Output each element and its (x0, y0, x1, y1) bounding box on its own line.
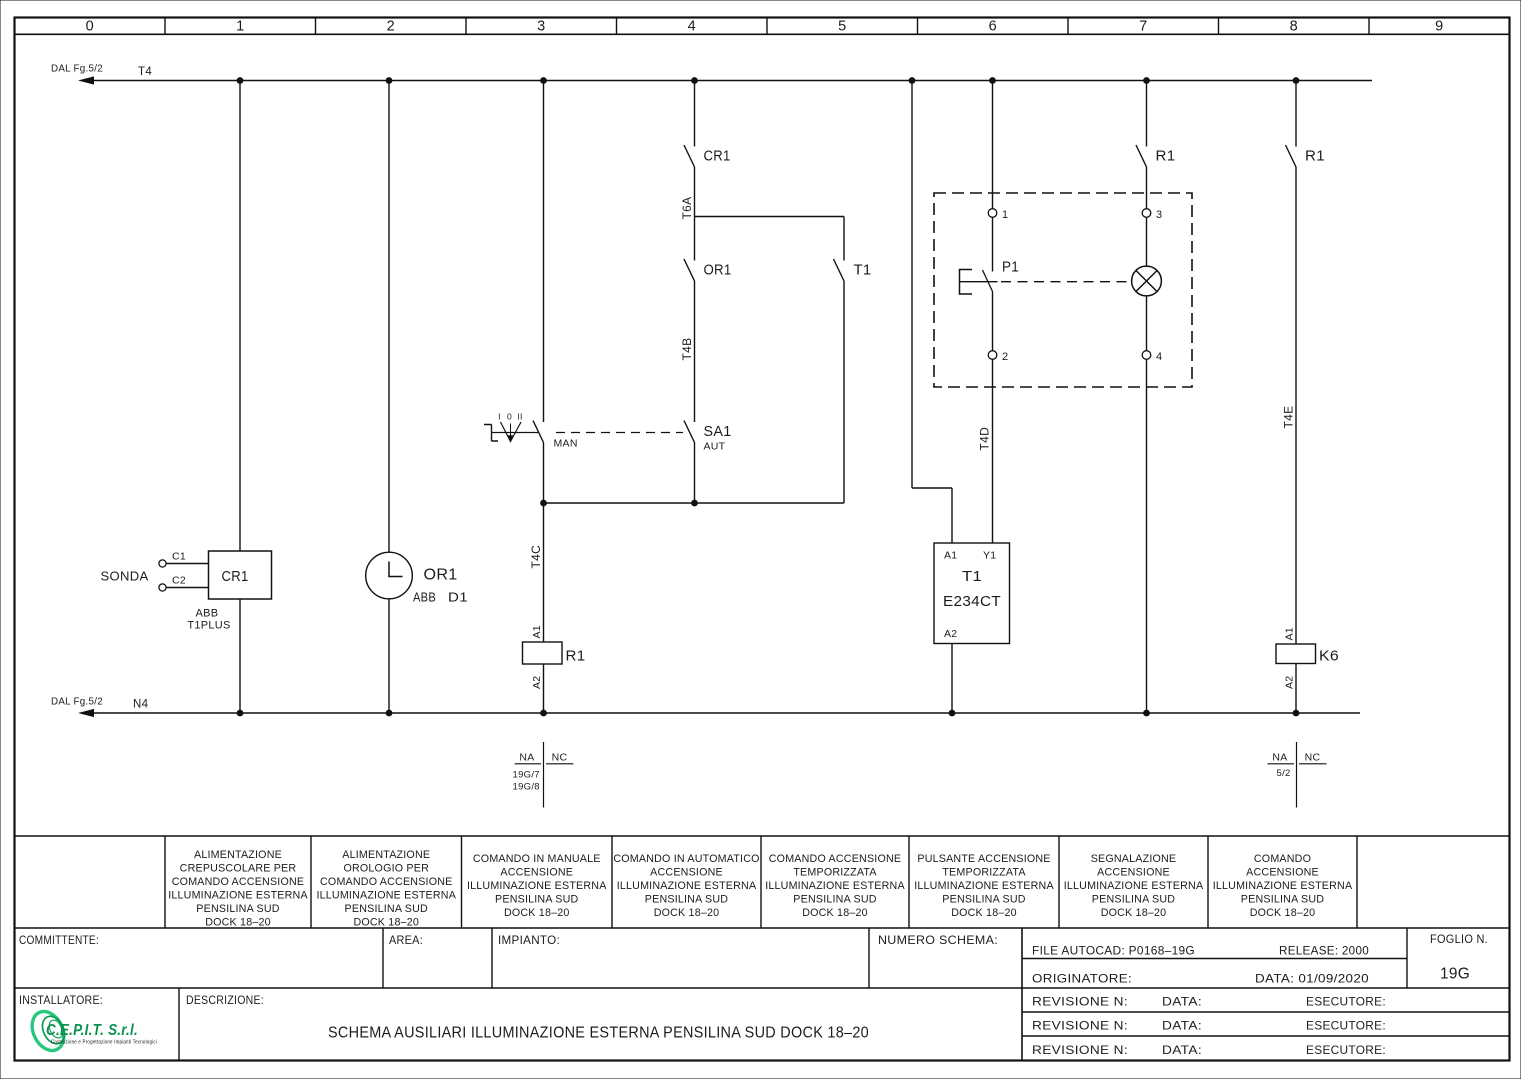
svg-text:4: 4 (1156, 351, 1162, 363)
wire column3 upper (543, 81, 545, 423)
wire column9 seg1 (1146, 81, 1148, 147)
svg-text:ABB: ABB (413, 591, 436, 605)
dashed mechanical link MAN-SA1 (556, 432, 683, 434)
svg-text:T6A: T6A (680, 197, 694, 220)
contact MAN (selector) (533, 421, 544, 443)
svg-text:AREA:: AREA: (389, 933, 423, 947)
junction at column3 y503 (541, 500, 547, 506)
svg-text:1: 1 (1002, 209, 1008, 221)
divider committente/area (382, 928, 384, 988)
wire to A1 pin (951, 488, 953, 543)
bottom bus N4 wire (93, 712, 1360, 714)
svg-text:A2: A2 (944, 628, 957, 640)
svg-text:P1: P1 (1002, 260, 1019, 276)
wire T1-branch upper (843, 217, 845, 261)
svg-text:DAL Fg.5/2: DAL Fg.5/2 (51, 696, 103, 708)
wire column1 bottom (239, 599, 241, 713)
svg-text:COMMITTENTE:: COMMITTENTE: (19, 933, 99, 947)
junction on N4 bus (1144, 710, 1150, 716)
svg-text:AUT: AUT (704, 441, 726, 453)
svg-text:A2: A2 (531, 676, 543, 689)
divider installatore/descrizione (178, 988, 180, 1061)
svg-text:NC: NC (552, 752, 568, 764)
svg-text:OR1: OR1 (704, 263, 732, 279)
top bus T4 arrow (80, 77, 94, 84)
logo CEPIT swoosh outer (26, 1006, 70, 1056)
svg-text:REVISIONE N:: REVISIONE N: (1032, 1019, 1128, 1033)
cross-ref K6 NA underline (1268, 763, 1295, 765)
ruler tick 7 (1067, 18, 1069, 35)
wire column2 bottom (388, 599, 390, 713)
junction on N4 bus (949, 710, 955, 716)
selector position V left (501, 422, 511, 442)
lamp HL circle (1132, 266, 1162, 296)
svg-text:E234CT: E234CT (943, 594, 1001, 610)
wire 3 to lamp (1146, 217, 1148, 266)
svg-text:Costruzione e Progettazione Im: Costruzione e Progettazione Impianti Tec… (51, 1040, 157, 1046)
title block line under committente row (15, 987, 1510, 989)
divider area/impianto (491, 928, 493, 988)
wire column10 seg2 (1295, 167, 1297, 644)
wire jog horizontal (912, 487, 952, 489)
revision row divider 2 (1022, 1035, 1510, 1037)
ruler tick 6 (917, 18, 919, 35)
svg-text:K6: K6 (1319, 649, 1339, 665)
device box CR1 (crepuscolare) (209, 551, 272, 599)
ruler tick 8 (1218, 18, 1220, 35)
pushbutton P1 actuator bracket (960, 270, 973, 295)
svg-text:6: 6 (989, 19, 997, 35)
wire column9 to N4 (1146, 359, 1148, 713)
wire column3 bottom (543, 664, 545, 713)
junction on T4 bus (1293, 78, 1299, 84)
contact R1 (K6) (1286, 145, 1297, 167)
wire column2 top (388, 81, 390, 553)
svg-text:T4B: T4B (680, 338, 694, 361)
lead C1 (166, 563, 208, 565)
ruler tick 9 (1368, 18, 1370, 35)
wire column3 middle (543, 443, 545, 643)
junction on T4 bus (237, 78, 243, 84)
svg-text:C1: C1 (172, 551, 186, 563)
svg-text:5: 5 (838, 19, 846, 35)
wire lamp to 4 (1146, 296, 1148, 351)
cross-ref K6 NC underline (1299, 763, 1327, 765)
svg-text:ESECUTORE:: ESECUTORE: (1306, 1019, 1386, 1033)
svg-text:3: 3 (537, 19, 545, 35)
svg-text:I: I (498, 412, 501, 422)
svg-text:ESECUTORE:: ESECUTORE: (1306, 1043, 1386, 1057)
svg-text:T4C: T4C (529, 545, 543, 569)
revision row divider 1 (1022, 1011, 1510, 1013)
svg-text:3: 3 (1156, 209, 1162, 221)
bottom bus N4 arrow (80, 710, 94, 717)
junction on N4 bus (237, 710, 243, 716)
pushbutton P1 plunger link (960, 281, 998, 283)
svg-text:RELEASE: 2000: RELEASE: 2000 (1279, 944, 1369, 958)
svg-text:0: 0 (86, 19, 94, 35)
dashed link P1 to lamp (1001, 281, 1131, 283)
svg-text:INSTALLATORE:: INSTALLATORE: (19, 993, 103, 1007)
svg-text:1: 1 (236, 19, 244, 35)
junction on T4 bus (386, 78, 392, 84)
file block left edge (1021, 928, 1023, 1061)
coil R1 box (523, 642, 563, 664)
svg-text:D1: D1 (448, 591, 468, 605)
wire column4 seg4 (694, 443, 696, 504)
lead C2 (166, 587, 208, 589)
svg-text:7: 7 (1139, 19, 1147, 35)
svg-text:R1: R1 (1156, 149, 1176, 165)
svg-text:Y1: Y1 (983, 550, 996, 562)
function strip divider (164, 836, 166, 928)
svg-text:DESCRIZIONE:: DESCRIZIONE: (186, 993, 264, 1007)
svg-text:4: 4 (688, 19, 696, 35)
function strip divider (1207, 836, 1209, 928)
junction on N4 bus (541, 710, 547, 716)
cross-ref R1 NC underline (546, 763, 574, 765)
svg-text:8: 8 (1290, 19, 1298, 35)
selector handle bracket (484, 425, 498, 442)
wire column9 seg2 (1146, 167, 1148, 209)
svg-text:SA1: SA1 (704, 424, 732, 440)
contact T1 (834, 259, 845, 281)
lamp HL cross (1136, 271, 1157, 292)
svg-text:C.E.P.I.T. S.r.l.: C.E.P.I.T. S.r.l. (46, 1022, 138, 1039)
svg-text:9: 9 (1435, 19, 1443, 35)
svg-text:DAL Fg.5/2: DAL Fg.5/2 (51, 63, 103, 75)
svg-text:19G/8: 19G/8 (513, 782, 540, 793)
top bus T4 wire (93, 80, 1372, 82)
wire column10 seg1 (1295, 81, 1297, 147)
ruler tick 1 (164, 18, 166, 35)
logo CEPIT swoosh inner (46, 1018, 65, 1040)
wire Y1 column (992, 359, 994, 543)
junction on T4 bus (692, 78, 698, 84)
svg-text:A2: A2 (1283, 676, 1295, 689)
svg-text:CR1: CR1 (222, 569, 249, 585)
ruler tick 3 (465, 18, 467, 35)
svg-text:T1: T1 (962, 568, 982, 585)
svg-text:DATA:: DATA: (1162, 995, 1202, 1009)
divider impianto/numero schema (868, 928, 870, 988)
svg-text:T1: T1 (854, 263, 872, 279)
terminal circle 3 (1142, 209, 1151, 218)
function strip divider (611, 836, 613, 928)
wire column8 from bus (992, 81, 994, 209)
selector pointer arrow (510, 424, 512, 437)
svg-text:2: 2 (387, 19, 395, 35)
svg-text:DATA:: DATA: (1162, 1043, 1202, 1057)
svg-text:A1: A1 (531, 625, 543, 638)
logo CEPIT swoosh middle (38, 1013, 69, 1048)
svg-text:NUMERO SCHEMA:: NUMERO SCHEMA: (878, 933, 998, 947)
svg-text:CR1: CR1 (704, 149, 731, 165)
function strip top line (15, 835, 1510, 837)
terminal circle 1 (988, 209, 997, 218)
junction on T4 bus (1144, 78, 1150, 84)
svg-text:T4: T4 (138, 66, 152, 78)
cross-ref R1 NA underline (515, 763, 542, 765)
svg-text:FILE AUTOCAD: P0168–19G: FILE AUTOCAD: P0168–19G (1032, 944, 1195, 958)
svg-text:II: II (517, 412, 522, 422)
svg-text:DATA:: DATA: (1162, 1019, 1202, 1033)
svg-text:5/2: 5/2 (1277, 768, 1291, 779)
wire column4 seg2 (694, 167, 696, 261)
junction on N4 bus (386, 710, 392, 716)
wire column10 bottom (1295, 664, 1297, 714)
svg-text:SCHEMA AUSILIARI ILLUMINAZIO: SCHEMA AUSILIARI ILLUMINAZIONE ESTERNA P… (328, 1025, 869, 1042)
svg-text:REVISIONE N:: REVISIONE N: (1032, 1043, 1128, 1057)
wire column4 seg3 (694, 281, 696, 422)
function strip divider (760, 836, 762, 928)
contact OR1 (684, 259, 695, 281)
coil K6 box (1276, 644, 1316, 664)
svg-text:ABB: ABB (196, 608, 219, 620)
wire column1 top (239, 81, 241, 552)
svg-text:DATA: 01/09/2020: DATA: 01/09/2020 (1255, 972, 1369, 986)
clock OR1 circle (366, 552, 413, 599)
terminal circle 4 (1142, 351, 1151, 360)
ruler band bottom line (15, 33, 1510, 35)
svg-text:R1: R1 (566, 649, 586, 665)
wire column6 from bus (911, 81, 913, 489)
svg-text:C2: C2 (172, 575, 186, 587)
ruler tick 2 (315, 18, 317, 35)
svg-text:T4E: T4E (1281, 406, 1295, 429)
svg-text:N4: N4 (133, 699, 149, 711)
wire column4 seg1 (694, 81, 696, 147)
file/originatore divider (1022, 958, 1407, 960)
svg-text:NC: NC (1305, 752, 1321, 764)
svg-text:MAN: MAN (554, 438, 578, 450)
ruler tick 4 (616, 18, 618, 35)
svg-text:NA: NA (1272, 752, 1287, 764)
cross-reference table K6 vertical (1296, 742, 1298, 808)
foglio box left edge (1406, 928, 1408, 988)
svg-text:R1: R1 (1305, 149, 1325, 165)
svg-text:T1PLUS: T1PLUS (187, 620, 230, 632)
terminal circle 2 (988, 351, 997, 360)
svg-text:SONDA: SONDA (101, 569, 149, 584)
function strip divider (310, 836, 312, 928)
contact SA1 (684, 421, 695, 443)
terminal C1 circle (159, 560, 166, 567)
svg-text:OR1: OR1 (424, 567, 458, 584)
svg-text:NA: NA (519, 752, 534, 764)
junction on T4 bus (909, 78, 915, 84)
svg-text:19G/7: 19G/7 (513, 770, 540, 781)
cross-reference table R1 vertical (543, 742, 545, 808)
function strip divider (1356, 836, 1358, 928)
node junction row y503 wire (544, 502, 845, 504)
wire P1 to 2 (992, 292, 994, 351)
contact R1 (lamp) (1136, 145, 1147, 167)
function strip bottom line (15, 927, 1510, 929)
svg-text:REVISIONE N:: REVISIONE N: (1032, 995, 1128, 1009)
junction on T4 bus (990, 78, 996, 84)
function strip divider (908, 836, 910, 928)
svg-text:IMPIANTO:: IMPIANTO: (498, 933, 560, 947)
svg-text:FOGLIO N.: FOGLIO N. (1430, 934, 1488, 946)
wire 1 to P1 (992, 217, 994, 271)
svg-text:2: 2 (1002, 351, 1008, 363)
svg-text:T4D: T4D (978, 427, 992, 451)
wire T1-branch lower (843, 281, 845, 503)
junction at column4 y503 (692, 500, 698, 506)
svg-text:19G: 19G (1440, 966, 1470, 983)
junction on T4 bus (541, 78, 547, 84)
node T6A junction wire to T1 branch (695, 216, 845, 218)
svg-text:0: 0 (507, 412, 512, 422)
terminal C2 circle (159, 584, 166, 591)
svg-text:A1: A1 (1283, 627, 1295, 640)
wire A2 to N4 (951, 644, 953, 714)
ruler tick 5 (766, 18, 768, 35)
svg-text:ORIGINATORE:: ORIGINATORE: (1032, 972, 1132, 986)
timer T1 box E234CT (934, 543, 1010, 644)
contact blade P1 (983, 270, 993, 292)
function strip divider (1058, 836, 1060, 928)
function strip divider (461, 836, 463, 928)
svg-text:A1: A1 (944, 550, 957, 562)
dashed enclosure box (934, 193, 1192, 387)
junction on N4 bus (1293, 710, 1299, 716)
svg-text:ESECUTORE:: ESECUTORE: (1306, 995, 1386, 1009)
selector link line (492, 432, 539, 434)
clock OR1 hands (389, 562, 403, 577)
contact CR1 (684, 145, 695, 167)
selector position V right (511, 422, 522, 442)
